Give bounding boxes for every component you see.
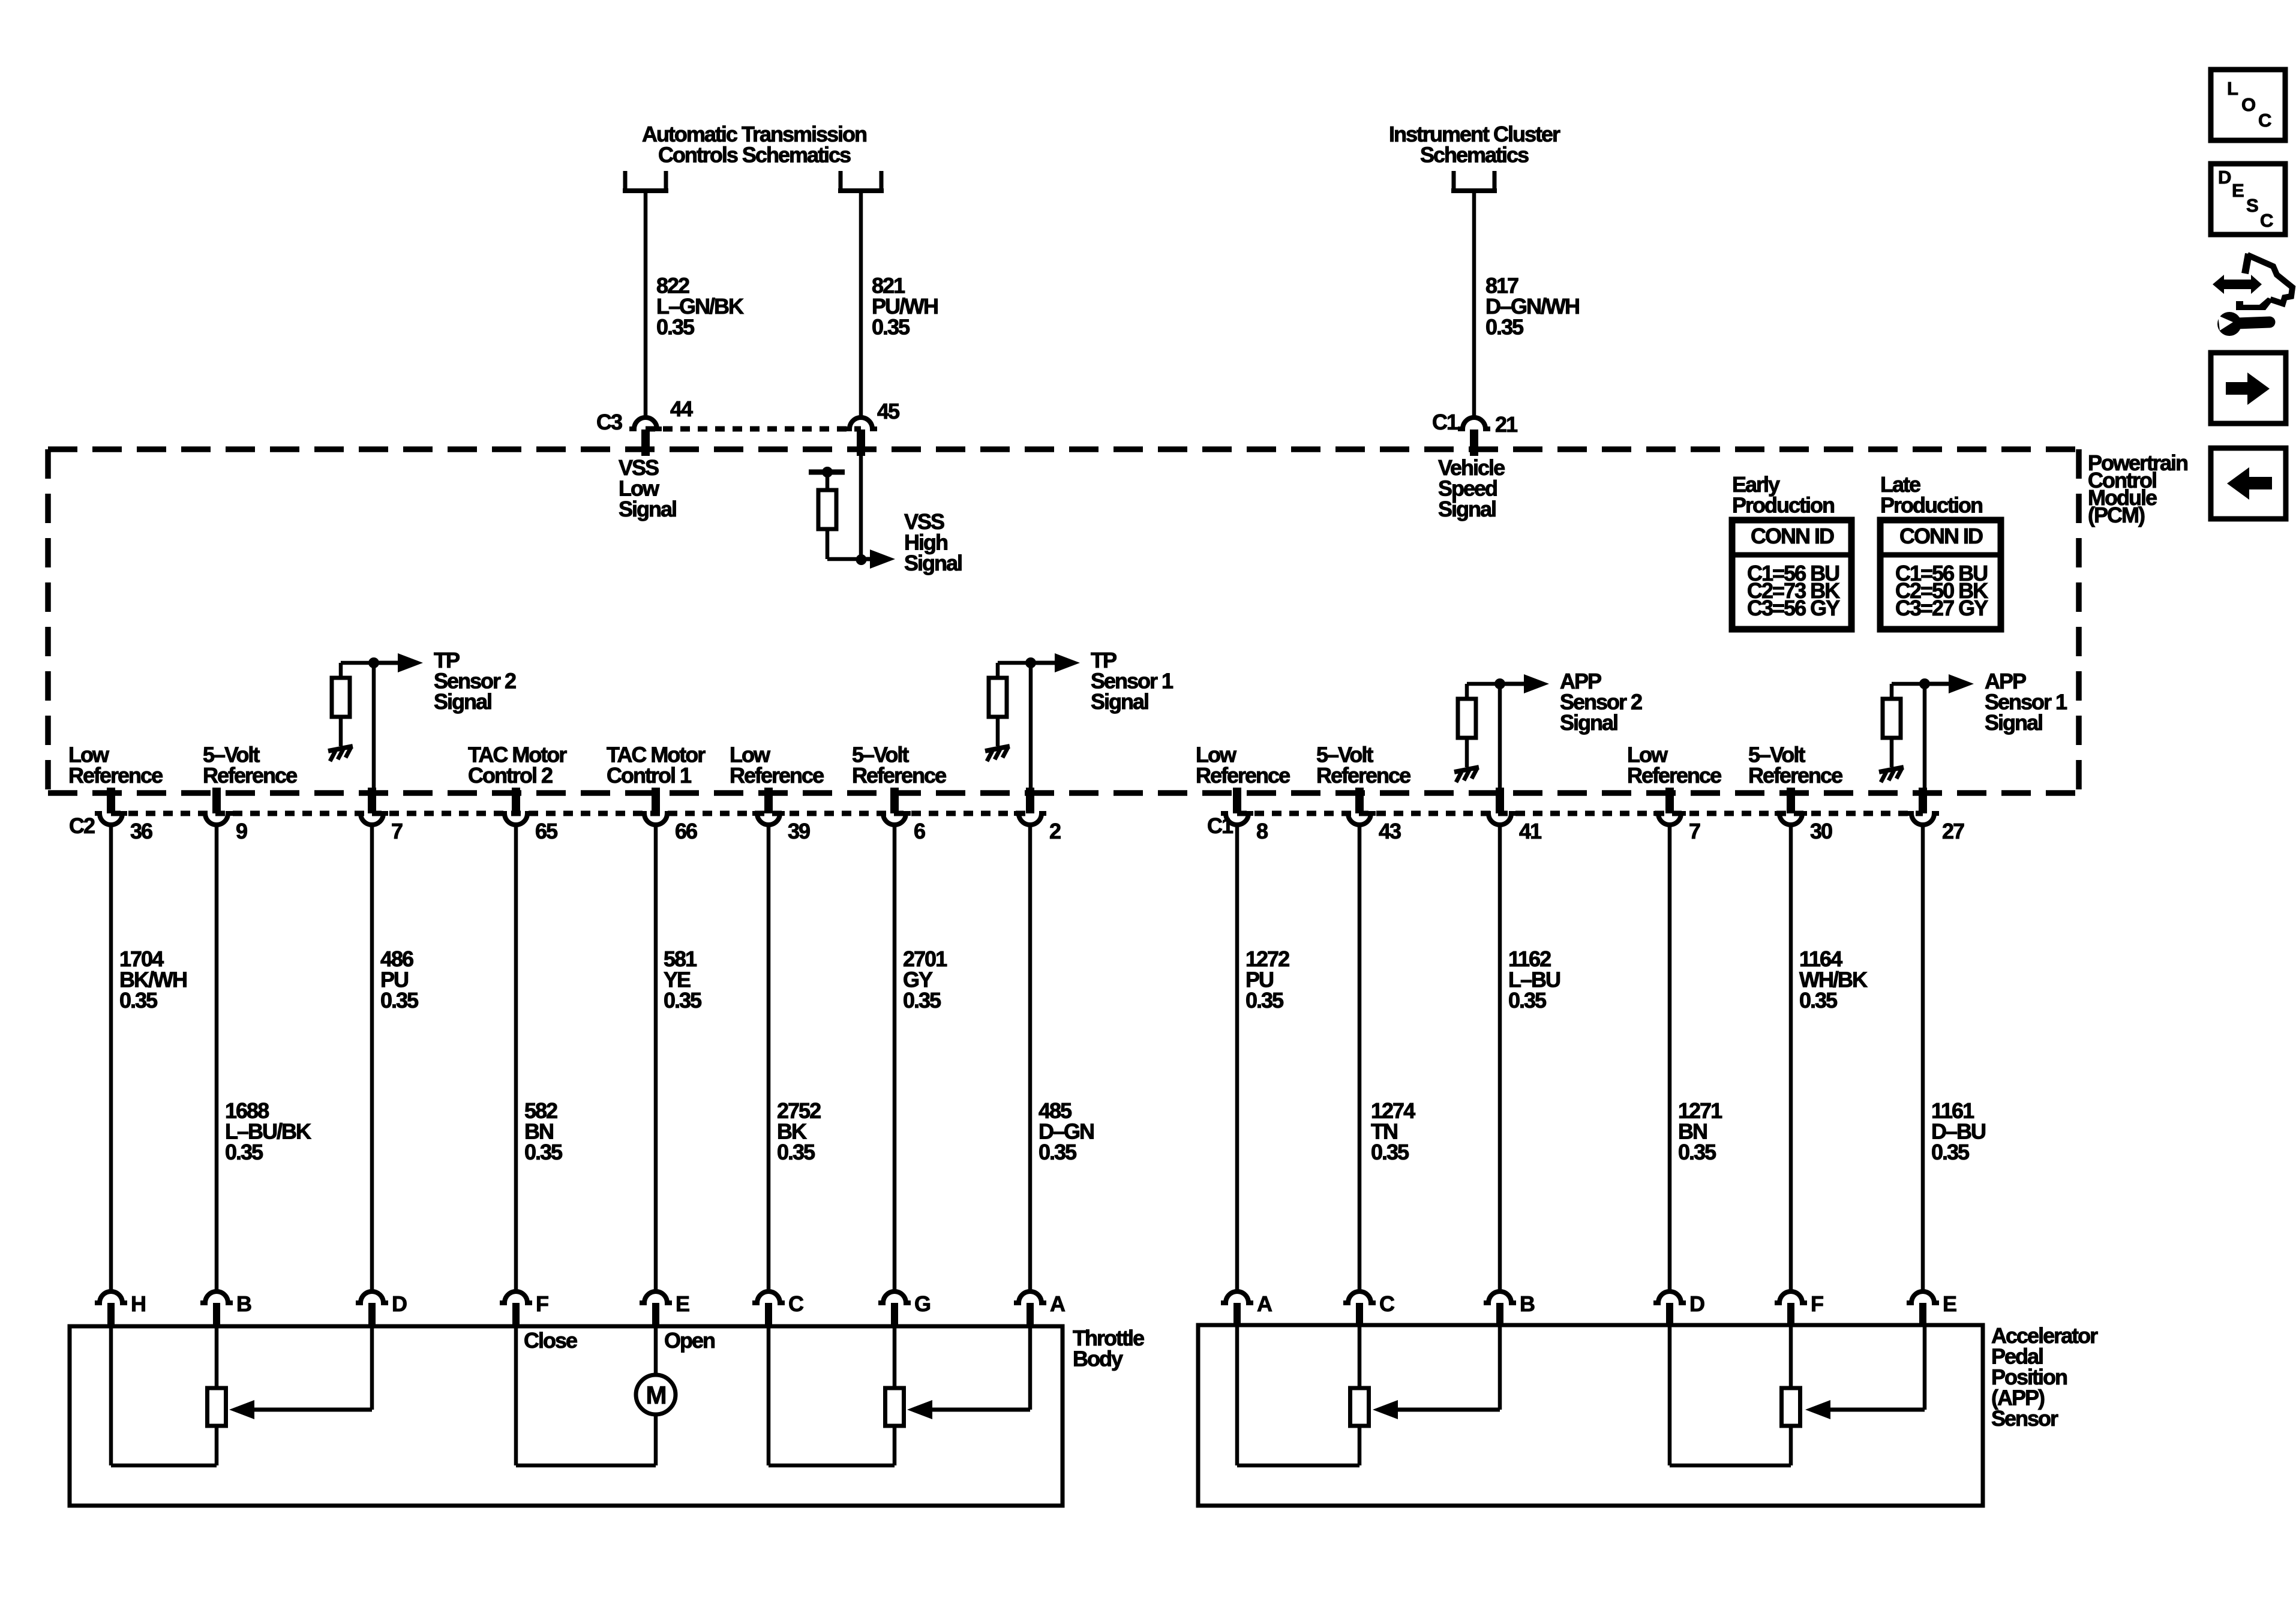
wire APP sensor 2 to pin 41 bbox=[1498, 684, 1502, 791]
svg-text:E: E bbox=[676, 1291, 689, 1316]
LOC icon box bbox=[2211, 70, 2285, 140]
svg-text:C: C bbox=[788, 1291, 804, 1316]
svg-text:0.35: 0.35 bbox=[1931, 1140, 1970, 1164]
wire potentiometer to loop bbox=[1358, 1426, 1362, 1465]
svg-text:Signal: Signal bbox=[1560, 710, 1617, 735]
throttle body pin F bbox=[500, 1291, 532, 1303]
TAC motor bbox=[636, 1375, 676, 1414]
wire D internal bbox=[370, 1326, 374, 1410]
svg-text:0.35: 0.35 bbox=[1371, 1140, 1409, 1164]
wire 1164 (pin 30 to component) bbox=[1789, 825, 1793, 1291]
svg-text:C: C bbox=[2258, 110, 2271, 131]
svg-text:0.35: 0.35 bbox=[524, 1140, 563, 1164]
junction dot (APP Sensor 2 Signal) bbox=[1494, 678, 1505, 689]
APP sensor pin A bbox=[1221, 1291, 1253, 1303]
svg-text:27: 27 bbox=[1942, 819, 1964, 843]
resistor lead bottom bbox=[826, 529, 830, 559]
svg-text:Reference: Reference bbox=[1196, 763, 1290, 788]
connector dashed line between pins 44 and 45 bbox=[646, 426, 861, 432]
svg-text:8: 8 bbox=[1256, 819, 1268, 843]
throttle body pin E bbox=[640, 1291, 672, 1303]
off-page bracket (wire 817) bbox=[1454, 171, 1494, 191]
svg-text:7: 7 bbox=[1689, 819, 1700, 843]
svg-text:Close: Close bbox=[524, 1328, 577, 1353]
svg-text:M: M bbox=[646, 1381, 666, 1409]
svg-text:39: 39 bbox=[788, 819, 810, 843]
connector dashed line C2 (left group) bbox=[111, 811, 1030, 816]
svg-text:44: 44 bbox=[670, 397, 693, 421]
wire E internal (APP) bbox=[1923, 1325, 1927, 1410]
off-page bracket (wire 822) bbox=[625, 171, 666, 191]
PCM connector pin 7 bbox=[368, 788, 376, 813]
PCM connector pin 8 bbox=[1233, 788, 1241, 813]
svg-text:65: 65 bbox=[535, 819, 558, 843]
wire B internal (APP) bbox=[1498, 1325, 1502, 1410]
ground symbol (APP Sensor 2 Signal) bbox=[1454, 767, 1479, 772]
APP sensor pin C bbox=[1343, 1291, 1376, 1303]
PCM connector pin 43 bbox=[1355, 788, 1364, 813]
svg-text:H: H bbox=[131, 1291, 145, 1316]
connector dashed line C1 (right group) bbox=[1237, 811, 1923, 816]
internal pull-up resistor / TP Sensor 2 Signal bbox=[341, 661, 374, 665]
svg-text:F: F bbox=[1811, 1291, 1823, 1316]
svg-text:F: F bbox=[536, 1291, 548, 1316]
svg-text:O: O bbox=[2241, 94, 2255, 115]
wiper arrow (B) bbox=[1398, 1408, 1500, 1412]
potentiometer TP sensor 1 bbox=[886, 1388, 904, 1426]
svg-text:Reference: Reference bbox=[1627, 763, 1721, 788]
potentiometer APP sensor 1 bbox=[1782, 1388, 1800, 1426]
APP sensor pin B bbox=[1484, 1291, 1516, 1303]
wiper arrow (D) bbox=[254, 1408, 372, 1412]
svg-text:0.35: 0.35 bbox=[1485, 315, 1524, 340]
svg-text:0.35: 0.35 bbox=[1039, 1140, 1077, 1164]
Throttle Body box bbox=[70, 1326, 1063, 1506]
svg-text:0.35: 0.35 bbox=[872, 315, 910, 340]
wire 2701 (pin 6 to component) bbox=[893, 825, 897, 1291]
wire 821 vertical bbox=[859, 191, 863, 417]
svg-text:0.35: 0.35 bbox=[903, 988, 941, 1013]
wire 1274 (pin 43 to component) bbox=[1358, 825, 1362, 1291]
svg-text:0.35: 0.35 bbox=[119, 988, 158, 1013]
wire B to potentiometer bbox=[215, 1326, 219, 1388]
VSS internal resistor bbox=[818, 490, 836, 529]
ground symbol (TP Sensor 1 Signal) bbox=[985, 746, 1010, 751]
svg-text:Sensor: Sensor bbox=[1991, 1406, 2058, 1431]
svg-text:45: 45 bbox=[877, 399, 900, 423]
wire 1162 (pin 41 to component) bbox=[1498, 825, 1502, 1291]
svg-text:CONN ID: CONN ID bbox=[1899, 524, 1983, 548]
internal pull-up resistor / APP Sensor 2 Signal bbox=[1467, 682, 1500, 686]
svg-text:0.35: 0.35 bbox=[225, 1140, 263, 1164]
svg-text:0.35: 0.35 bbox=[777, 1140, 815, 1164]
wire potentiometer to loop bbox=[215, 1426, 219, 1465]
svg-text:0.35: 0.35 bbox=[664, 988, 702, 1013]
svg-text:0.35: 0.35 bbox=[656, 315, 695, 340]
PCM connector pin 9 bbox=[212, 788, 221, 813]
throttle body pin D bbox=[356, 1291, 388, 1303]
internal pull-up resistor / APP Sensor 1 Signal bbox=[1892, 682, 1925, 686]
svg-text:36: 36 bbox=[130, 819, 152, 843]
wire loop D-F bbox=[1670, 1464, 1791, 1468]
ground symbol (APP Sensor 1 Signal) bbox=[1879, 767, 1904, 772]
svg-text:2: 2 bbox=[1049, 819, 1061, 843]
wire loop F-E bbox=[516, 1464, 656, 1468]
PCM connector pin 7 bbox=[1665, 788, 1674, 813]
svg-text:C3=56 GY: C3=56 GY bbox=[1747, 596, 1840, 620]
svg-text:Controls Schematics: Controls Schematics bbox=[658, 143, 851, 167]
connector pin 44 (C3) bbox=[629, 417, 662, 429]
wire A internal bbox=[1028, 1326, 1033, 1410]
svg-text:E: E bbox=[2232, 180, 2244, 201]
Accelerator Pedal Position Sensor box bbox=[1198, 1325, 1983, 1506]
wire loop C-G bbox=[769, 1464, 895, 1468]
wiper arrow (E) bbox=[1830, 1408, 1925, 1412]
Late Production CONN ID table bbox=[1880, 520, 2001, 629]
svg-text:0.35: 0.35 bbox=[1245, 988, 1284, 1013]
svg-text:21: 21 bbox=[1495, 412, 1518, 437]
wire 582 (pin 65 to component) bbox=[514, 825, 518, 1291]
wire 485 (pin 2 to component) bbox=[1028, 825, 1033, 1291]
svg-text:C1: C1 bbox=[1207, 813, 1233, 838]
PCM connector pin 66 bbox=[652, 788, 660, 813]
svg-text:Reference: Reference bbox=[68, 763, 163, 788]
wire TP sensor 1 to pin 2 bbox=[1029, 663, 1033, 791]
wire loop A-C bbox=[1237, 1464, 1359, 1468]
PCM connector pin 6 bbox=[890, 788, 899, 813]
throttle body pin G bbox=[878, 1291, 911, 1303]
svg-text:(PCM): (PCM) bbox=[2088, 503, 2145, 527]
junction dot (APP Sensor 1 Signal) bbox=[1919, 678, 1930, 689]
svg-text:Control 1: Control 1 bbox=[607, 763, 692, 788]
svg-text:B: B bbox=[236, 1291, 251, 1316]
svg-text:Signal: Signal bbox=[619, 497, 676, 521]
wire F to potentiometer bbox=[1789, 1325, 1793, 1388]
wire 581 (pin 66 to component) bbox=[654, 825, 658, 1291]
svg-text:C1: C1 bbox=[1432, 410, 1458, 434]
internal pull-up resistor / TP Sensor 1 Signal bbox=[998, 661, 1031, 665]
svg-text:C3: C3 bbox=[596, 410, 622, 434]
svg-text:A: A bbox=[1050, 1291, 1066, 1316]
svg-text:Signal: Signal bbox=[1091, 689, 1148, 714]
wire 486 (pin 7 to component) bbox=[370, 825, 374, 1291]
svg-text:9: 9 bbox=[236, 819, 247, 843]
svg-text:C2: C2 bbox=[69, 813, 95, 838]
svg-text:Signal: Signal bbox=[434, 689, 491, 714]
signal arrow APP Sensor 2 Signal bbox=[1500, 682, 1526, 686]
wire motor to loop bbox=[654, 1414, 658, 1465]
svg-text:L: L bbox=[2227, 78, 2238, 99]
arrow VSS High Signal bbox=[861, 557, 872, 561]
PCM connector pin 39 bbox=[764, 788, 773, 813]
wire 45 inside PCM bbox=[859, 455, 863, 559]
wire 2752 (pin 39 to component) bbox=[767, 825, 771, 1291]
DESC icon box bbox=[2211, 164, 2285, 235]
svg-text:D: D bbox=[392, 1291, 407, 1316]
forward arrow icon box bbox=[2211, 353, 2286, 423]
svg-text:S: S bbox=[2246, 195, 2258, 216]
connector pin 21 (C1) bbox=[1458, 417, 1490, 429]
svg-text:D: D bbox=[2218, 167, 2231, 188]
resistor lead top bbox=[826, 472, 830, 490]
svg-text:D: D bbox=[1689, 1291, 1704, 1316]
off-page bracket (wire 821) bbox=[841, 171, 881, 191]
svg-text:Body: Body bbox=[1073, 1347, 1123, 1371]
svg-text:Signal: Signal bbox=[1438, 497, 1496, 521]
svg-text:Control 2: Control 2 bbox=[468, 763, 553, 788]
signal arrow APP Sensor 1 Signal bbox=[1925, 682, 1951, 686]
Early Production CONN ID table bbox=[1732, 520, 1851, 629]
ground symbol (TP Sensor 2 Signal) bbox=[328, 746, 353, 751]
svg-text:0.35: 0.35 bbox=[1799, 988, 1838, 1013]
PCM connector pin 2 bbox=[1026, 788, 1034, 813]
svg-text:Reference: Reference bbox=[203, 763, 297, 788]
signal arrow TP Sensor 1 Signal bbox=[1031, 661, 1057, 665]
svg-text:Reference: Reference bbox=[1748, 763, 1842, 788]
svg-text:Reference: Reference bbox=[852, 763, 946, 788]
junction dot (TP Sensor 1 Signal) bbox=[1025, 657, 1036, 668]
svg-text:0.35: 0.35 bbox=[380, 988, 419, 1013]
potentiometer TP sensor 2 bbox=[208, 1388, 226, 1426]
wire 817 vertical bbox=[1472, 191, 1476, 417]
wire 1272 (pin 8 to component) bbox=[1235, 825, 1239, 1291]
wire potentiometer to loop bbox=[893, 1426, 897, 1465]
APP sensor pin D bbox=[1653, 1291, 1686, 1303]
PCM module dashed box top edge bbox=[48, 446, 2079, 452]
PCM connector pin 65 bbox=[512, 788, 520, 813]
PCM module dashed box bottom edge bbox=[48, 790, 2079, 796]
wire potentiometer to loop bbox=[1789, 1426, 1793, 1465]
svg-text:Open: Open bbox=[664, 1328, 715, 1353]
PCM module dashed box left edge bbox=[45, 449, 51, 793]
svg-text:E: E bbox=[1943, 1291, 1956, 1316]
wire 1704 (pin 36 to component) bbox=[109, 825, 113, 1291]
wire C to potentiometer bbox=[1358, 1325, 1362, 1388]
svg-text:Production: Production bbox=[1880, 493, 1982, 518]
svg-text:0.35: 0.35 bbox=[1678, 1140, 1716, 1164]
junction dot on top bar bbox=[822, 467, 833, 477]
svg-text:B: B bbox=[1520, 1291, 1535, 1316]
svg-text:Signal: Signal bbox=[1985, 710, 2042, 735]
throttle body pin A bbox=[1014, 1291, 1046, 1303]
APP sensor pin E bbox=[1907, 1291, 1939, 1303]
wrench bbox=[2217, 312, 2241, 336]
connector pin 45 bbox=[845, 417, 877, 429]
throttle body pin B bbox=[200, 1291, 233, 1303]
PCM module dashed box right edge bbox=[2076, 449, 2082, 793]
wire TP sensor 2 to pin 7 bbox=[372, 663, 376, 791]
svg-text:G: G bbox=[914, 1291, 930, 1316]
svg-text:Schematics: Schematics bbox=[1420, 143, 1529, 167]
wire 1161 (pin 27 to component) bbox=[1921, 825, 1925, 1291]
PCM connector pin 36 bbox=[107, 788, 115, 813]
svg-text:Reference: Reference bbox=[730, 763, 824, 788]
svg-text:7: 7 bbox=[391, 819, 403, 843]
PCM connector pin 27 bbox=[1919, 788, 1927, 813]
wire resistor to junction bbox=[827, 557, 861, 561]
back arrow icon box bbox=[2211, 448, 2286, 519]
wire C internal bbox=[767, 1326, 771, 1465]
wire 822 vertical bbox=[644, 191, 648, 417]
svg-text:66: 66 bbox=[675, 819, 697, 843]
wire F internal bbox=[514, 1326, 518, 1465]
signal arrow TP Sensor 2 Signal bbox=[374, 661, 400, 665]
svg-text:C: C bbox=[2260, 210, 2273, 231]
wire D internal (APP) bbox=[1668, 1325, 1672, 1465]
VSS internal resistor top bar bbox=[809, 470, 845, 475]
svg-text:A: A bbox=[1257, 1291, 1272, 1316]
svg-text:43: 43 bbox=[1379, 819, 1401, 843]
potentiometer APP sensor 2 bbox=[1350, 1388, 1369, 1426]
svg-text:Reference: Reference bbox=[1316, 763, 1410, 788]
svg-text:6: 6 bbox=[914, 819, 925, 843]
throttle body pin H bbox=[95, 1291, 127, 1303]
junction dot (TP Sensor 2 Signal) bbox=[368, 657, 379, 668]
wire E to motor bbox=[654, 1326, 658, 1375]
APP sensor pin F bbox=[1775, 1291, 1807, 1303]
throttle body pin C bbox=[752, 1291, 785, 1303]
junction node wire 45 bbox=[856, 554, 867, 565]
svg-text:0.35: 0.35 bbox=[1508, 988, 1547, 1013]
svg-text:CONN ID: CONN ID bbox=[1751, 524, 1834, 548]
PCM connector pin 41 bbox=[1496, 788, 1504, 813]
wire G to potentiometer bbox=[893, 1326, 897, 1388]
svg-text:C3=27 GY: C3=27 GY bbox=[1895, 596, 1988, 620]
svg-text:30: 30 bbox=[1810, 819, 1832, 843]
wiper arrow (A) bbox=[932, 1408, 1030, 1412]
wire 1271 (pin 7 to component) bbox=[1668, 825, 1672, 1291]
wire loop H-B bbox=[111, 1464, 217, 1468]
wire H internal bbox=[109, 1326, 113, 1465]
wire A internal (APP) bbox=[1235, 1325, 1239, 1465]
svg-text:C: C bbox=[1379, 1291, 1395, 1316]
PCM connector pin 30 bbox=[1787, 788, 1795, 813]
svg-text:41: 41 bbox=[1519, 819, 1542, 843]
vehicle/wrench icon bbox=[2213, 275, 2262, 294]
wire APP sensor 1 to pin 27 bbox=[1923, 684, 1927, 791]
svg-text:Signal: Signal bbox=[904, 551, 962, 575]
wire 1688 (pin 9 to component) bbox=[215, 825, 219, 1291]
svg-text:Production: Production bbox=[1732, 493, 1834, 518]
